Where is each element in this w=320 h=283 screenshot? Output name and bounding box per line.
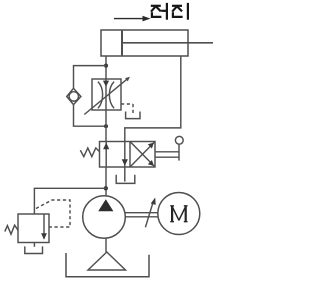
right position crossed paths <box>131 142 155 167</box>
lever actuator with knob <box>155 136 183 160</box>
wire cylinder rod-side port down <box>125 56 181 142</box>
wire check-valve branch upper <box>74 66 107 89</box>
wire pump suction <box>105 238 107 252</box>
node junction pump outlet <box>104 186 108 190</box>
tank (main reservoir) <box>66 253 149 277</box>
wire valve P port to pump <box>105 167 107 197</box>
wire relief valve drain <box>33 243 35 247</box>
wire valve T port drain <box>124 167 126 182</box>
strainer <box>88 252 126 270</box>
directional control valve 4/2 <box>100 142 156 168</box>
tank (relief valve drain) <box>25 246 43 253</box>
rotation arrow <box>145 201 153 227</box>
pilot line (dashed, relief valve) <box>36 200 70 227</box>
cylinder body <box>101 30 213 56</box>
relief valve <box>18 214 49 243</box>
label arrow <box>114 16 151 22</box>
pump <box>83 196 126 239</box>
spring (relief valve) <box>5 225 18 234</box>
motor M <box>158 193 200 235</box>
wire cylinder cap-side port down <box>105 56 107 79</box>
left position straight flow paths <box>105 142 107 168</box>
wire FCV to valve A port <box>105 110 107 142</box>
tank (valve drain) <box>116 175 135 184</box>
node junction below flow control valve <box>104 124 108 128</box>
wire pump outlet to relief valve <box>34 188 106 214</box>
wire FCV drain (dashed) <box>121 104 133 114</box>
node junction above flow control valve <box>104 64 108 68</box>
check valve <box>67 88 81 104</box>
wire check-valve branch lower <box>74 105 107 127</box>
label 전진 (drawn glyph strokes) <box>151 3 188 20</box>
shaft pump-motor <box>125 198 158 228</box>
tank (FCV drain) <box>126 112 140 119</box>
spring (directional valve) <box>80 148 99 157</box>
cylinder piston <box>121 31 123 56</box>
cylinder rod <box>122 42 213 44</box>
flow control valve (adjustable, with drain) <box>84 77 130 115</box>
